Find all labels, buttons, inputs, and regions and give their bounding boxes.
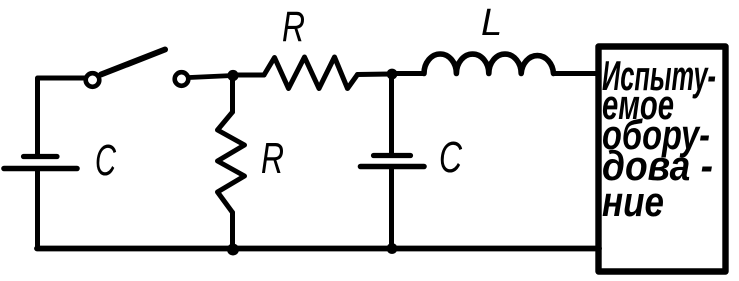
svg-text:R: R xyxy=(282,3,305,51)
node B (junction dot top-right) xyxy=(387,69,398,80)
wire: junction A to resistor R1 xyxy=(233,73,264,78)
wire: left vertical upper segment xyxy=(38,78,86,155)
capacitor C2 top plate (middle) xyxy=(374,153,411,158)
resistor R2 (vertical zigzag) xyxy=(218,112,245,213)
switch S1 right contact circle xyxy=(175,72,189,86)
capacitor C1 top plate (left source) xyxy=(24,154,58,159)
wire: junction A down to resistor R2 xyxy=(230,76,235,113)
wire: left vertical lower segment to bottom rail xyxy=(35,169,40,249)
node A (junction dot top-left) xyxy=(227,70,238,81)
svg-text:R: R xyxy=(261,134,284,183)
capacitor C1 bottom plate xyxy=(4,166,77,172)
wire: junction B down to capacitor C2 xyxy=(389,74,394,153)
wire: bottom rail xyxy=(37,246,599,252)
resistor R1 (horizontal zigzag) xyxy=(264,57,358,89)
switch S1 blade xyxy=(101,50,165,75)
node C (bottom junction dot under R2) xyxy=(227,244,239,256)
switch S1 left contact circle xyxy=(86,73,100,87)
svg-text:ние: ние xyxy=(602,178,664,225)
node D (bottom junction dot under C2) xyxy=(387,243,398,254)
equipment box label text xyxy=(602,52,716,225)
wire: capacitor C2 down to bottom rail xyxy=(389,168,394,249)
capacitor C2 bottom plate xyxy=(361,164,425,170)
wire: resistor R2 down to bottom rail xyxy=(230,213,235,250)
wire: switch to junction A xyxy=(190,76,234,78)
wire: junction B to inductor L1 xyxy=(392,71,424,76)
wire: inductor L1 to equipment box xyxy=(554,71,600,76)
svg-text:C: C xyxy=(95,136,117,185)
inductor L1 (four humps) xyxy=(424,54,554,74)
svg-text:L: L xyxy=(481,2,502,44)
wire: resistor R1 to junction B xyxy=(358,72,393,78)
equipment-under-test box xyxy=(599,47,726,272)
svg-text:C: C xyxy=(439,133,463,182)
